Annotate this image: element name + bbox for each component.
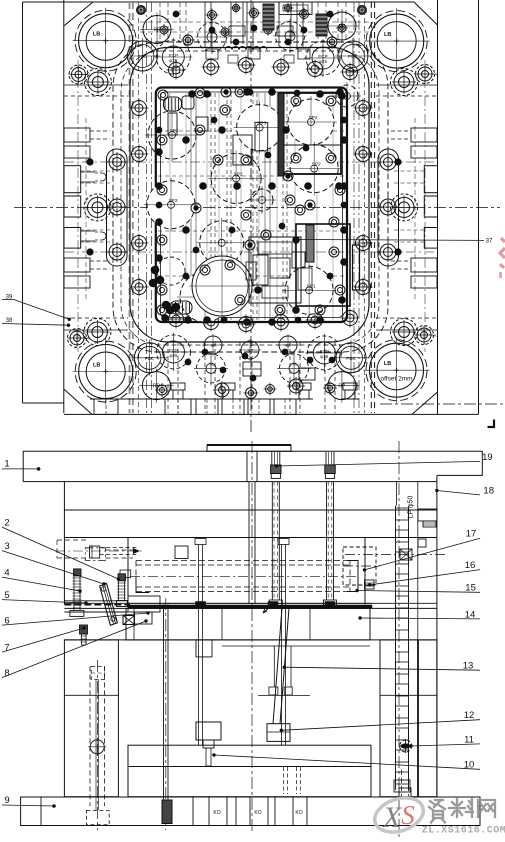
part 17 cross square: [400, 549, 412, 560]
molded part dark band: [128, 605, 372, 608]
center support rod: [163, 604, 165, 800]
svg-text:PBC: PBC: [145, 356, 155, 361]
svg-text:K0: K0: [285, 343, 291, 348]
center rod axis: [165, 598, 167, 830]
right vertical x396 upper: [396, 482, 398, 506]
svg-text:SP2: SP2: [234, 171, 243, 177]
dash-dot row y252: [64, 251, 438, 253]
ECP circle cluster 2: [157, 335, 191, 369]
svg-text:ZL.XS1616.COM: ZL.XS1616.COM: [422, 826, 505, 837]
edge band dashed verticals: [85, 118, 87, 300]
bottom plate left partition: [40, 797, 42, 826]
insert block divider: [280, 144, 341, 146]
ejector sleeve SP3 at 259.6,127.6: [237, 105, 283, 151]
ECP circle cluster 3: [307, 336, 341, 370]
KO axis centerline: [398, 441, 400, 838]
bottom edge top-hat screws: [171, 383, 185, 390]
solid pocket boundary: [130, 48, 369, 343]
centerline bottom-right: [380, 403, 505, 405]
core block: [126, 608, 370, 640]
chamfer bottom-right: [412, 392, 438, 414]
chamfer bottom-left: [64, 389, 92, 414]
cavity insert inner line: [161, 92, 343, 318]
block right of cross: [135, 612, 153, 624]
ejector sleeve SP2 at 171,204.8: [147, 181, 195, 229]
XL circle cluster 0: [198, 23, 227, 52]
PBC circle cluster 3: [336, 343, 366, 373]
svg-text:A: A: [434, 72, 437, 77]
angled latch bar: [100, 584, 118, 626]
hatched gate pad top-left: [164, 97, 182, 111]
red edge watermark marks: [500, 238, 505, 268]
ejector sleeve small at 221.7,242.8: [200, 221, 244, 265]
dark bar left of insert block: [278, 93, 284, 176]
center insert F: [292, 252, 305, 268]
svg-text:SP2: SP2: [169, 128, 178, 134]
right stadium slot: [378, 149, 399, 266]
right edge horizontals: [376, 84, 437, 86]
fine vertical texture lines: [169, 93, 171, 320]
svg-text:8: 8: [4, 668, 9, 679]
rail screw foot: [86, 810, 109, 824]
ejector base plate: [128, 767, 371, 797]
bottom edge screw block strip: [90, 398, 310, 400]
sprue locating block: [207, 445, 291, 451]
sprue bushing: [246, 451, 248, 481]
runner right bracket: [347, 561, 358, 592]
ejector sleeve SP2 at 236.1,178.4: [211, 153, 261, 203]
slide bar I: [306, 225, 314, 262]
dashed line x364: [363, 2, 365, 413]
ejector sleeve small at 262,200: [251, 189, 273, 211]
svg-text:SP2: SP2: [312, 162, 321, 168]
corner mark bottom-right: [488, 420, 495, 428]
rack foot block: [394, 780, 410, 792]
bottom edge dark nuts: [202, 349, 208, 355]
PBC circle cluster 2: [134, 343, 164, 373]
extra dark blobs: [247, 89, 253, 95]
insert block top-right (thick): [280, 93, 341, 174]
left side plate inner edge / main plate left edge: [63, 0, 65, 413]
top edge left segment: [23, 1, 94, 3]
svg-text:SP3: SP3: [257, 121, 266, 127]
chamfer top-right: [414, 2, 438, 25]
svg-text:KO: KO: [213, 810, 220, 816]
latch spring bolt 2: [118, 574, 126, 581]
ejector pin x=283.5: [281, 545, 283, 746]
hatched gate pad bottom-left: [170, 301, 192, 314]
small dashed circle left: [157, 257, 185, 285]
slide bar J: [353, 245, 360, 290]
top clamp plate: [23, 451, 482, 481]
main plate right edge: [437, 0, 439, 414]
dash-dot line x354: [353, 2, 355, 413]
svg-text:KO: KO: [295, 810, 302, 816]
large solid circle bottom-center: [192, 256, 252, 316]
dark bolt cluster left-mid: [151, 266, 159, 274]
bolt circles rows: [169, 63, 184, 78]
part 16 hatched block: [365, 580, 375, 589]
return pin RP circle cluster 3: [328, 372, 356, 400]
parting line: [128, 602, 372, 604]
top edge small screws: [208, 11, 217, 20]
gate arrow: [263, 605, 272, 613]
ejector sleeve small at 347,96: [336, 85, 358, 107]
left clamp block C: [64, 228, 81, 249]
thick vertical in right rail: [417, 640, 419, 797]
ejector sleeve SP1 at 309.1,290.3: [285, 266, 333, 314]
spring washer circle on rail screw: [90, 740, 104, 754]
puller bolt at x=330: [325, 452, 327, 465]
small insert K: [196, 117, 208, 131]
plate seam y510: [64, 509, 437, 511]
svg-text:3: 3: [4, 541, 9, 552]
guide bushing LB BL: [79, 345, 133, 399]
svg-text:LB: LB: [93, 32, 100, 38]
A plate: [63, 482, 65, 605]
puller bolt at x=275.8: [271, 452, 273, 465]
bolt 1 foot: [70, 610, 84, 616]
horizontal centerline: [14, 206, 500, 208]
right vertical x418: [417, 482, 419, 640]
svg-text:X: X: [382, 801, 403, 834]
svg-text:A: A: [433, 333, 436, 338]
edge axis dash-dot lines: [77, 60, 79, 352]
runner band left step: [136, 576, 149, 592]
dashed pocket boundary: [113, 42, 388, 352]
part 10 screw: [196, 722, 221, 740]
svg-text:38: 38: [6, 318, 13, 324]
svg-text:11: 11: [464, 734, 474, 745]
svg-text:LP φ50: LP φ50: [408, 496, 415, 519]
pin feet at parting: [196, 602, 206, 606]
runner dashed band: [136, 560, 350, 562]
XL circle cluster 3: [280, 354, 309, 383]
small insert H: [255, 122, 268, 150]
svg-text:XL: XL: [209, 361, 215, 366]
svg-text:4: 4: [4, 568, 9, 579]
watermark text zi-liao-wang drawn as strokes: [429, 799, 495, 823]
svg-text:SP2: SP2: [168, 198, 177, 204]
return pin RP circle cluster 0: [143, 16, 171, 44]
return pin RP circle cluster 2: [142, 372, 170, 400]
ejector sleeve SP2 at 311,122: [288, 99, 334, 145]
main plate bottom edge: [64, 413, 438, 415]
top edge small rects: [206, 49, 218, 59]
screw part7: [80, 625, 88, 634]
leader 37: [297, 238, 299, 240]
horizontal dashed rows in cavity: [158, 130, 345, 132]
ejector retainer plate: [128, 745, 371, 766]
ECP circle cluster 1: [306, 41, 340, 75]
svg-text:S: S: [401, 800, 415, 830]
center insert D: [253, 255, 268, 285]
left rail: [64, 640, 118, 797]
svg-text:φ25: φ25: [169, 353, 178, 358]
rail screw axis: [97, 660, 99, 830]
right edge screw stacks: [411, 128, 437, 142]
left side screws: [81, 171, 95, 173]
side lock screw left: [57, 539, 88, 541]
dash-dot row y162: [64, 161, 438, 163]
ejector sleeve SP2 at 314.2,168.6: [290, 145, 338, 193]
left edge screw stacks lower: [64, 258, 90, 272]
A/B plate seam y537: [64, 537, 437, 539]
dark bolts along cavity plate edges: [204, 91, 211, 98]
svg-text:PBC: PBC: [346, 356, 356, 361]
extra corner small dark grommets: [137, 6, 146, 15]
black dashed pair right: [370, 2, 372, 413]
insert block bottom-right (thick): [296, 224, 350, 306]
core sub block: [196, 640, 212, 657]
svg-text:12: 12: [464, 710, 475, 721]
bottom dashed verticals: [204, 342, 206, 413]
ejector sleeve SP1 at 205,297: [180, 272, 230, 322]
support plate: [64, 602, 437, 604]
vertical solid thin pairs in cavity: [190, 93, 192, 320]
bottom centre screw stack: [243, 362, 261, 376]
cavity insert plate (thick): [156, 88, 347, 323]
ECP circle cluster 0: [156, 40, 190, 74]
small insert L: [168, 113, 177, 135]
scallop coil at pocket top: [225, 47, 267, 50]
svg-text:LB: LB: [384, 32, 391, 38]
return pin RP circle cluster 1: [328, 12, 356, 40]
core lower step line: [222, 645, 370, 647]
svg-text:φ25: φ25: [320, 354, 329, 359]
vertical dashed pairs in cavity: [210, 93, 212, 320]
vertical centerline: [250, 0, 252, 434]
KO hole circles in plan: [204, 336, 222, 354]
dashed pocket boundary inner: [121, 51, 379, 345]
left side plate outer edge: [22, 2, 24, 403]
svg-text:K0: K0: [210, 343, 216, 348]
right edge dashed screw lines: [394, 170, 424, 172]
rack column: [395, 506, 397, 790]
guide bushing LB BR: [370, 343, 424, 397]
link pocket verticals: [273, 646, 275, 687]
svg-text:XL: XL: [292, 361, 298, 366]
part 11 stop pin symbol: [400, 740, 412, 752]
dark bolt cluster left-bottom: [162, 301, 170, 309]
bottom edge small circles: [215, 383, 229, 397]
svg-text:LB: LB: [384, 361, 391, 367]
left edge screw stacks upper: [64, 128, 90, 142]
main plate top edge: [93, 1, 414, 3]
stadium slot bolts: [109, 154, 125, 170]
left edge small dark screws: [87, 159, 93, 165]
dashed line x139: [138, 2, 140, 413]
left side plate bottom edge: [23, 402, 64, 404]
left stadium slot: [107, 149, 128, 266]
XL circle cluster 1: [276, 22, 305, 51]
small blocks right column: [418, 509, 437, 521]
latch dash-dot block: [85, 548, 105, 561]
center cluster extra rects: [249, 237, 301, 303]
left edge dashed screw lines: [80, 170, 112, 172]
right side plate bottom edge: [438, 413, 479, 415]
svg-text:LB: LB: [93, 363, 100, 369]
guide bushing LB TR: [370, 14, 424, 68]
KO holes in bottom plate: [192, 797, 194, 826]
bottom clamp plate: [21, 797, 480, 826]
right side plate outer edge: [478, 0, 480, 414]
center insert E: [270, 258, 290, 278]
svg-text:18: 18: [483, 485, 494, 496]
svg-text:SP1: SP1: [307, 283, 316, 289]
latch spring bolt 1: [74, 569, 82, 576]
ejector sleeve SP2 at 172,135: [148, 111, 196, 159]
latch bar pivot: [101, 587, 105, 591]
rail screw left (hidden, dashed): [89, 666, 91, 806]
ejector plate screws: [283, 767, 285, 794]
svg-text:16: 16: [465, 560, 476, 571]
svg-text:37: 37: [486, 239, 493, 245]
gray dashed line left: [129, 2, 131, 413]
cross block part6: [123, 616, 135, 625]
left clamp block A: [64, 166, 81, 193]
svg-text:2: 2: [4, 518, 9, 529]
small insert G: [233, 135, 252, 165]
KO screw dashed: [401, 770, 403, 797]
angled ejector link: [273, 608, 282, 724]
svg-text:19: 19: [482, 452, 493, 463]
svg-text:K0: K0: [247, 348, 253, 353]
ejector pin heads under B plate seam: [195, 539, 206, 545]
PBC circle cluster 1: [338, 41, 368, 71]
pocket wall right: [364, 538, 366, 605]
watermark logo ellipse: [370, 792, 427, 838]
svg-text:17: 17: [466, 529, 477, 540]
latch base lines: [64, 600, 128, 602]
PBC circle cluster 0: [127, 41, 157, 71]
svg-text:RP: RP: [338, 384, 346, 390]
left clamp block B: [64, 196, 81, 217]
top edge bolt slots: [204, 2, 206, 47]
svg-text:offset 2mm: offset 2mm: [380, 376, 412, 383]
dash-dot line x146: [145, 2, 147, 413]
svg-text:9: 9: [4, 795, 9, 806]
large edge bolts with dashed rings: [88, 72, 108, 92]
svg-text:SP2: SP2: [308, 115, 317, 121]
link pocket feet: [269, 687, 278, 695]
top center dark bolt stacks: [263, 4, 274, 30]
ejector pin x=200.5: [198, 545, 200, 746]
inner bolt circles: [158, 90, 168, 100]
chamfer top-left: [64, 2, 93, 26]
sprue axis centerline: [251, 441, 253, 833]
part 17 dashed duct: [343, 547, 376, 585]
XL circle cluster 2: [197, 354, 226, 383]
corner screw bosses with A labels: [72, 68, 86, 82]
svg-text:7: 7: [4, 643, 9, 654]
guide bushing LB TL: [79, 14, 133, 68]
right rail: [380, 640, 437, 797]
svg-text:KO: KO: [254, 810, 261, 816]
top edge dark nuts: [209, 27, 215, 33]
block under top plate: [175, 546, 188, 559]
left edge horizontals: [64, 84, 128, 86]
latch engagement dark dash: [64, 604, 130, 606]
medium dark bolts scattered: [191, 203, 201, 213]
pocket wall left: [127, 538, 129, 605]
right edge clamp blocks: [424, 166, 437, 193]
svg-text:1: 1: [4, 459, 9, 470]
bolt 2 foot: [116, 601, 127, 607]
top center big rect outline: [279, 2, 312, 15]
